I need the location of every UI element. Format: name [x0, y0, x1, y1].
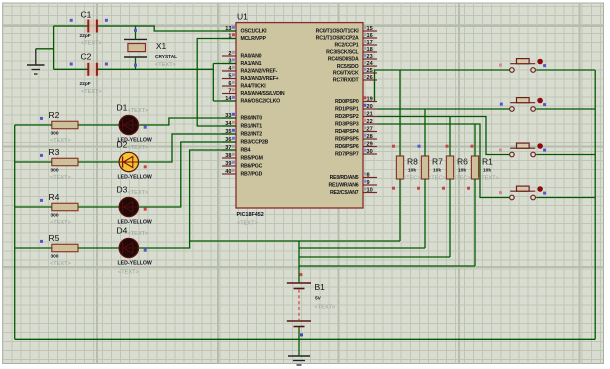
LED D3 — [117, 185, 152, 226]
crystal X1 — [124, 39, 177, 68]
node button 4 right marker — [543, 192, 546, 195]
svg-text:R7: R7 — [432, 157, 443, 167]
wire pin 19 to button 1 — [375, 70, 510, 102]
svg-text:10k: 10k — [483, 168, 491, 174]
pin 4 RA2/AN2/VREF- — [222, 66, 278, 75]
resistor R6 10k — [446, 156, 470, 182]
LED D4 — [117, 226, 152, 276]
node button 3 left marker — [499, 149, 502, 152]
LED D1 — [117, 103, 152, 144]
svg-text:<TEXT>: <TEXT> — [237, 221, 258, 227]
svg-text:39: 39 — [225, 161, 231, 167]
wire R3 to D2 — [78, 161, 119, 163]
svg-text:RC3/SCK/SCL: RC3/SCK/SCL — [326, 50, 359, 56]
svg-text:LED-YELLOW: LED-YELLOW — [118, 175, 152, 181]
svg-text:25: 25 — [367, 68, 373, 74]
pin 39 RB6/PGC — [222, 161, 263, 170]
wire rail to R7 bottom — [299, 247, 425, 249]
pin 23 RC4/SDI/SDA — [328, 54, 377, 63]
node D1 right terminal — [144, 126, 147, 129]
svg-text:10k: 10k — [408, 168, 416, 174]
svg-text:R3: R3 — [49, 147, 60, 157]
svg-text:15: 15 — [367, 26, 373, 32]
wire C1 right to pin 13 (OSC1) — [97, 26, 236, 31]
svg-text:<TEXT>: <TEXT> — [128, 190, 149, 196]
svg-text:RC4/SDI/SDA: RC4/SDI/SDA — [328, 57, 359, 63]
pin 1 MCLR/VPP — [222, 33, 266, 42]
svg-text:10k: 10k — [433, 168, 441, 174]
svg-text:RE2/CS/AN7: RE2/CS/AN7 — [330, 190, 359, 196]
pin 17 RC2/CCP1 — [334, 40, 377, 49]
node R4 left terminal — [40, 199, 43, 202]
svg-text:RB0/INT0: RB0/INT0 — [241, 116, 263, 122]
node R6 top terminal — [446, 145, 449, 148]
resistor R2 300 — [49, 110, 79, 144]
node R1 bottom terminal — [467, 187, 470, 190]
pin 2 RA0/AN0 — [222, 51, 262, 60]
push button SW3 — [510, 143, 536, 157]
svg-text:RA1/AN1: RA1/AN1 — [241, 61, 262, 67]
wire R1 bottom lead — [474, 179, 476, 266]
svg-text:R5: R5 — [49, 233, 60, 243]
wire R2 to D1 — [78, 124, 119, 126]
svg-text:LED-YELLOW: LED-YELLOW — [118, 261, 152, 267]
wire pin 22 to button 4 — [377, 124, 510, 198]
wire C2/crystal row — [97, 68, 213, 70]
node R6 bottom terminal — [442, 187, 445, 190]
wire battery negative lead to ground — [298, 327, 300, 357]
wire crystal bottom lead — [135, 57, 137, 69]
node C1 right junction — [105, 19, 108, 22]
wire R6 bottom lead — [449, 179, 451, 257]
pin 8 RE0/RD/AN5 — [330, 172, 377, 181]
svg-text:300: 300 — [51, 254, 59, 260]
ground top-left — [27, 49, 45, 74]
pin 26 RC7/RX/DT — [333, 75, 377, 84]
wire R2 row left — [15, 124, 52, 126]
svg-text:16: 16 — [367, 33, 373, 39]
wire R5 to D4 — [78, 247, 119, 249]
svg-text:RB6/PGC: RB6/PGC — [241, 164, 263, 170]
svg-text:7: 7 — [228, 88, 231, 94]
node C2 right junction — [105, 63, 108, 66]
svg-text:RD7/PSP7: RD7/PSP7 — [335, 152, 359, 158]
wire battery positive lead — [298, 241, 300, 283]
svg-text:300: 300 — [51, 213, 59, 219]
svg-text:8: 8 — [367, 172, 370, 178]
wire left ground rail — [14, 125, 16, 339]
node button 3 right marker — [543, 149, 546, 152]
ground bottom — [288, 356, 310, 365]
pin 3 RA1/AN1 — [222, 58, 262, 67]
svg-text:RC1/T1OSI/CCP2A: RC1/T1OSI/CCP2A — [316, 36, 359, 42]
svg-text:19: 19 — [367, 96, 373, 102]
node R7 top terminal — [418, 145, 421, 148]
svg-text:17: 17 — [367, 40, 373, 46]
svg-text:<TEXT>: <TEXT> — [128, 108, 149, 114]
wire C1-C2 left vertical — [53, 26, 55, 69]
svg-text:<TEXT>: <TEXT> — [315, 305, 336, 311]
pin 16 RC1/T1OSI/CCP2A — [316, 33, 377, 42]
node R8 top terminal — [392, 145, 395, 148]
push button SW4 — [510, 186, 536, 200]
svg-text:22pF: 22pF — [80, 33, 91, 39]
resistor R7 10k — [421, 156, 445, 182]
wire R4 row left — [15, 206, 52, 208]
pin 21 RD2/PSP2 — [335, 111, 377, 120]
svg-text:RA6/OSC2/CLKO: RA6/OSC2/CLKO — [241, 99, 281, 105]
pin 28 RD5/PSP5 — [335, 134, 377, 143]
svg-text:CRYSTAL: CRYSTAL — [155, 54, 177, 60]
pin 6 RA4/T0CKI — [222, 81, 266, 90]
pin 34 RB1/INT1 — [222, 121, 262, 130]
svg-text:300: 300 — [51, 131, 59, 137]
svg-text:40: 40 — [225, 169, 231, 175]
svg-text:300: 300 — [51, 168, 59, 174]
svg-text:RA0/AN0: RA0/AN0 — [241, 54, 262, 60]
svg-text:OSC1/CLKI: OSC1/CLKI — [241, 29, 268, 35]
wire rail to R8 bottom — [190, 240, 400, 242]
wire D2 to pin 35 — [139, 134, 237, 162]
svg-text:5: 5 — [228, 73, 231, 79]
svg-text:RE0/RD/AN5: RE0/RD/AN5 — [330, 175, 359, 181]
svg-text:RB5/PGM: RB5/PGM — [241, 156, 263, 162]
wire D1 to pin 33 — [139, 118, 237, 125]
svg-text:5V: 5V — [315, 296, 322, 302]
wire pin 3 (RA1) connection — [213, 63, 236, 65]
node battery positive marker — [299, 273, 302, 276]
svg-text:RD1/PSP1: RD1/PSP1 — [335, 107, 359, 113]
svg-text:R8: R8 — [407, 157, 418, 167]
pin 20 RD1/PSP1 — [335, 104, 377, 113]
svg-text:10: 10 — [367, 187, 373, 193]
pin 15 RC0/T1OSO/T1CKI — [316, 26, 377, 35]
svg-text:RD6/PSP6: RD6/PSP6 — [335, 144, 359, 150]
svg-text:RA3/AN3/VREF+: RA3/AN3/VREF+ — [241, 76, 279, 82]
wire R7 top lead — [424, 109, 426, 156]
wire R1 top lead — [474, 124, 476, 156]
svg-text:10k: 10k — [458, 168, 466, 174]
svg-text:27: 27 — [367, 126, 373, 132]
pin 9 RE1/WR/AN6 — [329, 180, 378, 189]
pin 19 RD0/PSP0 — [335, 96, 377, 105]
LED D2 — [117, 140, 152, 181]
wire pin 21 to button 3 — [377, 117, 510, 155]
svg-text:R4: R4 — [49, 192, 60, 202]
svg-text:<TEXT>: <TEXT> — [50, 138, 71, 144]
node C2 left junction — [70, 63, 73, 66]
svg-text:9: 9 — [367, 180, 370, 186]
pin 5 RA3/AN3/VREF+ — [222, 73, 279, 82]
node button 1 right marker — [543, 64, 546, 67]
svg-text:C1: C1 — [81, 9, 92, 19]
svg-text:RC0/T1OSO/T1CKI: RC0/T1OSO/T1CKI — [316, 29, 360, 35]
battery B1 5V — [287, 282, 336, 327]
node battery negative marker — [300, 333, 303, 336]
svg-text:18: 18 — [367, 47, 373, 53]
wire button 1 to right rail — [536, 69, 595, 71]
wire D3 to pin 36 — [139, 142, 237, 207]
svg-text:RA4/T0CKI: RA4/T0CKI — [241, 84, 267, 90]
svg-text:22: 22 — [367, 119, 373, 125]
push button SW1 — [510, 59, 536, 73]
node crystal top junction — [134, 29, 137, 32]
wire C1 left to junction — [54, 25, 89, 27]
svg-text:RC6/TX/CK: RC6/TX/CK — [333, 71, 359, 77]
wire button 4 to right rail — [536, 197, 595, 199]
svg-text:6: 6 — [228, 81, 231, 87]
op-amp U1 PIC18F452 microcontroller — [236, 12, 363, 227]
pin 18 RC3/SCK/SCL — [326, 47, 377, 56]
svg-text:RC2/CCP1: RC2/CCP1 — [334, 43, 358, 49]
svg-text:RC7/RX/DT: RC7/RX/DT — [333, 78, 360, 84]
svg-text:PIC18F452: PIC18F452 — [237, 212, 264, 218]
pin 38 RB5/PGM — [222, 153, 263, 162]
svg-text:<TEC>: <TEC> — [403, 176, 421, 182]
node R1 top terminal — [471, 145, 474, 148]
svg-text:<TEXT>: <TEXT> — [155, 62, 176, 68]
svg-text:RD2/PSP2: RD2/PSP2 — [335, 114, 359, 120]
wire MCLR pin1 to pin 34 — [197, 39, 236, 127]
svg-text:<TEXT>: <TEXT> — [50, 220, 71, 226]
svg-text:26: 26 — [367, 75, 373, 81]
svg-text:<TEC>: <TEC> — [428, 176, 446, 182]
svg-text:RB7/PGD: RB7/PGD — [241, 172, 263, 178]
node R5 left terminal — [40, 240, 43, 243]
pin 24 RC5/SDO — [337, 61, 377, 70]
wire R3 row left — [15, 161, 52, 163]
wire pin 20 to button 2 — [377, 108, 510, 110]
node D4 right terminal — [144, 249, 147, 252]
wire bottom ground rail — [15, 338, 596, 340]
pin 7 RA5/AN4/SS/LVDIN — [222, 88, 285, 97]
pin 37 RB4 — [222, 145, 251, 154]
svg-text:U1: U1 — [237, 12, 248, 22]
svg-text:D4: D4 — [117, 226, 128, 236]
wire right rail — [594, 70, 596, 339]
node crystal bottom junction — [134, 64, 137, 67]
svg-text:24: 24 — [367, 61, 374, 67]
pin 35 RB2/INT2 — [222, 129, 262, 138]
svg-text:RA5/AN4/SS/LVDIN: RA5/AN4/SS/LVDIN — [241, 91, 285, 97]
pin 40 RB7/PGD — [222, 169, 263, 178]
svg-text:R2: R2 — [49, 110, 60, 120]
node button 4 left marker — [499, 191, 502, 194]
pin 27 RD4/PSP4 — [335, 126, 377, 135]
svg-text:RD3/PSP3: RD3/PSP3 — [335, 122, 359, 128]
wire ground tap — [36, 48, 54, 50]
svg-text:<TEXT>: <TEXT> — [118, 270, 139, 276]
svg-text:D2: D2 — [117, 140, 128, 150]
svg-text:RD4/PSP4: RD4/PSP4 — [335, 129, 359, 135]
svg-text:B1: B1 — [315, 282, 326, 292]
svg-text:RA2/AN2/VREF-: RA2/AN2/VREF- — [241, 69, 278, 75]
svg-text:21: 21 — [367, 111, 373, 117]
node R2 left terminal — [40, 117, 43, 120]
svg-text:<TEXT>: <TEXT> — [478, 176, 499, 182]
wire pin 3 to pin 14 vertical — [212, 64, 214, 102]
pin 36 RB3/CCP2B — [222, 137, 269, 146]
wire R4 to D3 — [78, 206, 119, 208]
svg-text:RE1/WR/AN6: RE1/WR/AN6 — [329, 183, 359, 189]
wire D4 to pin 37 — [139, 150, 237, 248]
pin 25 RC6/TX/CK — [333, 68, 377, 77]
wire R7 bottom lead — [424, 179, 426, 248]
capacitor C1 — [80, 9, 102, 46]
svg-text:RB4: RB4 — [241, 148, 251, 154]
svg-text:22pF: 22pF — [80, 81, 91, 87]
pin 10 RE2/CS/AN7 — [330, 187, 377, 196]
resistor R5 300 — [49, 233, 79, 267]
svg-text:<TEXT>: <TEXT> — [128, 145, 149, 151]
node D2 right terminal — [144, 165, 147, 168]
svg-text:30: 30 — [367, 149, 373, 155]
svg-text:RD5/PSP5: RD5/PSP5 — [335, 137, 359, 143]
svg-text:<TEC>: <TEC> — [453, 176, 471, 182]
push button SW2 — [510, 98, 536, 112]
node button 2 left marker — [500, 103, 503, 106]
svg-text:R1: R1 — [482, 157, 493, 167]
node C1 left junction — [70, 19, 73, 22]
svg-text:D3: D3 — [117, 185, 128, 195]
svg-text:23: 23 — [367, 54, 373, 60]
wire R5 row left — [15, 247, 52, 249]
svg-text:RB2/INT2: RB2/INT2 — [241, 132, 263, 138]
svg-text:29: 29 — [367, 141, 373, 147]
wire R8 bottom lead — [399, 179, 401, 241]
svg-text:MCLR/VPP: MCLR/VPP — [241, 36, 267, 42]
svg-text:RB1/INT1: RB1/INT1 — [241, 124, 263, 130]
svg-text:C2: C2 — [81, 52, 92, 62]
wire R6 top lead — [449, 117, 451, 157]
node R8 bottom terminal — [392, 187, 395, 190]
svg-text:<TEXT>: <TEXT> — [81, 41, 102, 47]
wire pin 14 (OSC2) connection — [213, 100, 236, 102]
node button 1 left marker — [499, 64, 502, 67]
capacitor C2 — [80, 52, 102, 96]
pin 29 RD6/PSP6 — [335, 141, 377, 150]
wire rail to R6 bottom — [299, 256, 450, 258]
resistor R1 10k — [471, 156, 498, 182]
wire button 2 to right rail — [536, 108, 595, 110]
svg-text:RC5/SDO: RC5/SDO — [337, 64, 359, 70]
svg-text:<TEXT>: <TEXT> — [128, 231, 149, 237]
resistor R4 300 — [49, 192, 79, 226]
pin 33 RB0/INT0 — [222, 113, 262, 122]
pin 13 OSC1/CLKI — [222, 26, 267, 35]
pin 30 RD7/PSP7 — [335, 149, 377, 158]
svg-text:RB3/CCP2B: RB3/CCP2B — [241, 140, 269, 146]
svg-text:<TEXT>: <TEXT> — [50, 261, 71, 267]
wire C2 left — [54, 68, 89, 70]
node button 2 right marker — [543, 103, 546, 106]
pin 14 RA6/OSC2/CLKO — [222, 96, 280, 105]
wire crystal top lead — [135, 26, 137, 39]
node R3 left terminal — [40, 154, 43, 157]
svg-text:38: 38 — [225, 153, 231, 159]
svg-text:R6: R6 — [457, 157, 468, 167]
wire rail to R1 bottom — [299, 265, 475, 267]
wire button 3 to right rail — [536, 154, 595, 156]
pin 22 RD3/PSP3 — [335, 119, 377, 128]
node R7 bottom terminal — [417, 187, 420, 190]
resistor R8 10k — [396, 156, 420, 182]
svg-text:<TEXT>: <TEXT> — [81, 89, 102, 95]
svg-text:28: 28 — [367, 134, 373, 140]
svg-text:2: 2 — [228, 51, 231, 57]
svg-text:X1: X1 — [156, 41, 167, 51]
svg-text:RD0/PSP0: RD0/PSP0 — [335, 99, 359, 105]
wire R8 top lead — [399, 70, 401, 156]
resistor R3 300 — [49, 147, 79, 181]
svg-text:<TEXT>: <TEXT> — [50, 175, 71, 181]
svg-text:20: 20 — [367, 104, 373, 110]
svg-text:D1: D1 — [117, 103, 128, 113]
node D3 right terminal — [144, 208, 147, 211]
